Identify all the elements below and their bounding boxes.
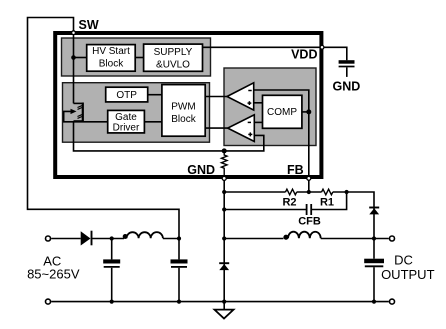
- svg-text:Gate: Gate: [115, 112, 137, 123]
- svg-text:Block: Block: [171, 114, 196, 125]
- svg-text:OUTPUT: OUTPUT: [381, 267, 435, 282]
- svg-text:CFB: CFB: [298, 216, 321, 228]
- svg-text:VDD: VDD: [291, 48, 317, 62]
- svg-text:R1: R1: [320, 196, 334, 208]
- svg-text:SW: SW: [79, 18, 99, 32]
- svg-text:PWM: PWM: [171, 102, 195, 113]
- svg-text:FB: FB: [287, 163, 304, 177]
- svg-text:GND: GND: [333, 80, 361, 94]
- svg-text:HV Start: HV Start: [92, 46, 130, 57]
- svg-text:Block: Block: [99, 59, 124, 70]
- svg-text:DC: DC: [394, 252, 413, 267]
- svg-text:&UVLO: &UVLO: [156, 59, 190, 70]
- svg-text:GND: GND: [187, 163, 215, 177]
- svg-text:OTP: OTP: [116, 90, 137, 101]
- svg-text:SUPPLY: SUPPLY: [154, 47, 193, 58]
- svg-text:85~265V: 85~265V: [27, 266, 80, 281]
- svg-text:R2: R2: [282, 196, 296, 208]
- svg-text:COMP: COMP: [267, 107, 297, 118]
- svg-text:Driver: Driver: [113, 122, 140, 133]
